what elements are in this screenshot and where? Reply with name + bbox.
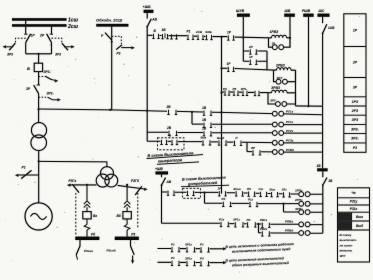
legend1 wire [158, 248, 214, 250]
rowE wire [259, 232, 323, 234]
seal stub 1Р wire [243, 60, 267, 62]
wire below bar a [79, 240, 81, 246]
ground switch ЗР31 dashes [39, 75, 46, 77]
wire ШУВ down [242, 17, 244, 61]
contact Вф row5 [218, 140, 227, 145]
dashed box row5 [158, 138, 185, 150]
ground switch ЗР3 right dashes [52, 38, 62, 43]
contact Сш rungA [259, 192, 267, 197]
bus 2СШ (main busbar 2) [12, 24, 67, 27]
bus СН bar a [75, 237, 99, 240]
right rail ШС vertical [322, 33, 324, 168]
bypass bus Обходная СШ [96, 24, 128, 27]
lamp branch1 wire [269, 38, 291, 47]
wire coil1 to rail [269, 37, 291, 39]
lamp pair rowD [299, 222, 304, 227]
lamp pair group1 [272, 45, 277, 50]
contact extra rung3 [254, 91, 260, 96]
wire -ШВ down [322, 171, 324, 177]
scan speckle noise (decorative) [121, 44, 122, 45]
contact Р1 rung1 [187, 35, 194, 40]
ground switch ЗР32 blade+arrow [48, 97, 60, 100]
bus 1СШ (main busbar 1) [12, 18, 67, 21]
row5 wire [147, 141, 322, 143]
underline text A line2 [157, 162, 199, 164]
lamp branch3 wire [268, 93, 296, 104]
wire breaker down [38, 72, 40, 85]
terminal table top frame [344, 14, 366, 153]
wire join horizontal [26, 53, 52, 55]
contact in box rungA [186, 191, 194, 196]
wire T2 left tap [70, 184, 96, 186]
contact 1Р rungA [218, 191, 227, 196]
contact 1В rung1 [161, 34, 168, 39]
contact 2Р seal [249, 49, 257, 54]
rung1 wire [147, 35, 268, 38]
wire below 3Р [38, 94, 40, 109]
circuit breaker В [34, 63, 42, 71]
ground switch ЗР3 left dashes [16, 38, 26, 43]
underline text A line1 [147, 155, 204, 159]
bus ШС [318, 14, 330, 17]
plug contacts b chevrons [124, 201, 130, 208]
disconnector 1Р blade [26, 34, 31, 43]
ground switch ЗР3 left blade [9, 43, 15, 50]
contact 1АВ blade on ШС [322, 17, 324, 23]
legend2 wire [158, 261, 214, 263]
rung2 wire [222, 68, 296, 70]
bottom left rail [161, 185, 163, 223]
contact 1В row4 [203, 131, 212, 136]
contact 2АВ rung1 [197, 35, 204, 40]
vertical rowB-C [283, 204, 285, 212]
bus 2ШВ [303, 14, 313, 17]
wire bus2 tap [51, 27, 53, 35]
bus +ШВ bottom [156, 171, 169, 174]
legend1 arrow [214, 248, 225, 250]
wire to breaker [38, 54, 40, 63]
contact 1Р rung2 [227, 67, 235, 72]
transformer T2 top winding [101, 167, 114, 180]
hatch block row Вшб [338, 222, 353, 230]
seal stub 2Р wire [243, 50, 267, 52]
contact Виа rungA [270, 192, 278, 197]
legend2 contact Р3 [200, 261, 210, 266]
contact ЧВ blade bottom [162, 178, 166, 186]
relay coil 1РВЗ [272, 35, 287, 38]
transformer T1 lower winding [31, 135, 47, 151]
transformer T2 left winding [96, 174, 109, 187]
switch РЗсна blade [76, 246, 80, 255]
lamp pair row2 [272, 111, 277, 116]
vertical rowD-E [258, 224, 260, 233]
bus СН bar b [115, 237, 139, 240]
contact Всна rungA [235, 191, 244, 196]
plug contacts a chevrons [84, 201, 90, 208]
ground switch Р3 bypass dashes [112, 36, 122, 44]
underline text B [181, 185, 229, 186]
disconnector 3Р blade [34, 85, 39, 93]
wire bus1 tap [25, 21, 27, 35]
contact Рб rung3 [224, 90, 230, 95]
breaker Вб box [123, 212, 131, 219]
contact ЗАВ1 rung1 [205, 35, 212, 40]
lamp pair row5 [272, 140, 277, 145]
wire bottom rail top [161, 175, 163, 178]
lamp pair row3 [272, 122, 277, 127]
ground switch Р3 bypass arrow [121, 47, 132, 49]
relay coil ЗРВЗ [272, 90, 288, 93]
lamp pair row6 [272, 150, 277, 155]
contact first rungA [167, 191, 175, 196]
lamp branch2 wire [274, 70, 296, 82]
lamp pair group3 [276, 102, 281, 107]
lamp pair row4 [272, 131, 277, 136]
legend2 arrow [214, 262, 225, 264]
contact Пб rungA [247, 192, 255, 197]
vertical row5-row6 [246, 142, 248, 151]
left rail vertical [146, 27, 148, 142]
wire branch b vertical [126, 185, 128, 237]
contact a in dashed box [160, 140, 167, 145]
wire T1 down [38, 151, 40, 162]
zigzag b [124, 224, 130, 230]
lamp pair group2 [276, 79, 281, 84]
contact row6 [252, 150, 261, 155]
disconnector РЗГа blade [72, 184, 79, 192]
dashed box rungA [183, 188, 201, 198]
rowC wire [284, 211, 323, 213]
relay coil 2РВЗ [277, 68, 292, 71]
legend1 contact Р1 [171, 247, 180, 252]
ground switch ЗР3 right blade [62, 43, 68, 50]
vertical g2-g3 right [295, 70, 297, 106]
bottom right rail [322, 185, 324, 233]
contact Рб rungD [246, 222, 256, 227]
contact 2В row4 [168, 131, 178, 136]
dashed drop left [75, 193, 77, 235]
wire 2ШВ down [308, 17, 310, 106]
wire branch a vertical [86, 185, 88, 237]
wire long line gen to right rail [39, 109, 323, 115]
contact 1В row3 [203, 123, 212, 128]
contact Виа row5 [202, 140, 211, 145]
contact 2В on long line [167, 110, 177, 115]
disconnector 2Р blade [47, 34, 52, 43]
contact 1АВ blade bottom right [323, 178, 327, 185]
wire coil3 left [268, 92, 272, 94]
wire seal join vertical [266, 51, 268, 70]
wire T2 right tap [118, 185, 145, 189]
rung3 wire [222, 91, 296, 94]
rungA wire [162, 192, 323, 194]
contact АВ blade [147, 19, 151, 27]
bus +ШБ [144, 10, 154, 13]
vertical row2-row3 [191, 112, 193, 124]
wire ШВ down [289, 17, 291, 47]
row4 wire [147, 131, 322, 134]
bus -ШВ bottom right [317, 168, 327, 171]
transformer T2 right winding [105, 174, 118, 187]
contact В rung1 [152, 34, 159, 39]
ground switch ЗР31 blade+arrow [46, 76, 52, 79]
contact Рб rungB [222, 202, 232, 207]
contact ЗР1з rungD [234, 222, 244, 227]
ground switch ЗР32 dashes [39, 96, 48, 98]
disconnector Р blade bypass [105, 33, 112, 40]
contact rungB2 [249, 202, 258, 207]
lamp pair rowB [299, 201, 304, 206]
breaker Ва box [83, 212, 91, 219]
contact Р row5 [233, 141, 242, 146]
wire to T1 [38, 109, 40, 123]
wire join right [51, 43, 53, 54]
generator tilde [31, 213, 47, 219]
transformer T1 upper winding [31, 123, 46, 138]
ground switch Р3 bypass blade [116, 45, 122, 50]
generator G circle [25, 203, 52, 230]
wire rail from ШБ [146, 13, 148, 19]
lamp pair rowC [299, 210, 304, 215]
contact 2В rung1 [170, 34, 177, 39]
center vertical 221 [221, 37, 223, 194]
contact ЗР3 rung3 [242, 91, 248, 96]
contact 1Р seal [249, 60, 257, 65]
bus ШВ [284, 14, 295, 17]
node rung1-vertical [220, 36, 222, 38]
disconnector Р1 stub [19, 174, 39, 176]
switch РЗснб blade [131, 246, 135, 255]
contact РВ2з rowE [261, 231, 270, 236]
dashed drop right [137, 193, 139, 229]
wire below bar b [130, 240, 132, 246]
rungB wire [205, 202, 323, 205]
node junction at breaker line [38, 108, 40, 110]
contact Р5 rung3 [233, 91, 239, 96]
legend2 contact Р1 [171, 261, 180, 266]
zigzag a [84, 224, 90, 230]
wire join left [25, 43, 27, 54]
contact 1Лз rungA [282, 192, 290, 197]
wire gen junction to T2 [39, 161, 107, 166]
lamp pair rowA [299, 192, 304, 197]
arrow down РЗснб [132, 256, 134, 261]
legend1 contact Р1b [200, 247, 210, 252]
wire bypass tap [111, 27, 113, 110]
bus ШУВ [237, 14, 250, 17]
hatch block row Вша [338, 213, 353, 221]
contact b in dashed box [171, 140, 178, 145]
row6 wire [247, 151, 323, 154]
contact 1Р rung1 [227, 35, 235, 40]
terminal table bottom frame [338, 188, 370, 262]
legend2 contact ЗР1з [186, 261, 196, 266]
wire row1 to right rail [296, 105, 323, 107]
rungD wire [162, 223, 323, 224]
wire generator drop [38, 161, 40, 202]
contact РВ1з rungD [261, 223, 270, 228]
row3 wire [192, 123, 323, 126]
contact 1В on long line [203, 111, 212, 116]
vertical rungA-B [204, 193, 206, 204]
contact Р1з rungD [220, 222, 230, 227]
disconnector РЗГб blade [135, 186, 142, 195]
legend1 contact ЗР1з [186, 247, 196, 252]
disconnector Р1 blade [21, 170, 31, 178]
lamp pair rowE [299, 231, 304, 236]
